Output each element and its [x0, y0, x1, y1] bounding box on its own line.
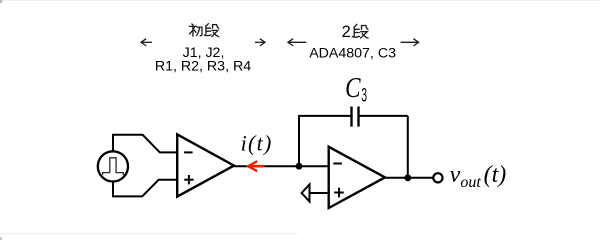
arrow right (stage-1 span): [255, 39, 265, 46]
arrow left (stage-2 span): [288, 39, 306, 46]
初 left radical: [192, 24, 194, 25]
段 left part: [354, 24, 357, 27]
pulse source V1 circle: [98, 151, 128, 181]
wire source bottom to op-amp U1 non-inverting input: [113, 180, 177, 197]
初 right 刀: [197, 27, 202, 36]
svg-text:(t): (t): [484, 162, 507, 188]
op-amp U1 minus sign: [184, 151, 193, 153]
svg-text:out: out: [460, 174, 481, 191]
node A junction dot: [296, 163, 303, 170]
arrow left (stage-1 span): [141, 39, 152, 46]
output node junction dot: [404, 174, 411, 181]
段 right 殳: [213, 25, 219, 29]
svg-text:R1, R2, R3, R4: R1, R2, R3, R4: [155, 58, 251, 74]
faint card top border: [0, 0, 600, 3]
wire node A up to feedback branch: [298, 116, 300, 166]
label vout(t): [450, 162, 507, 191]
svg-text:C: C: [345, 73, 361, 104]
svg-text:2: 2: [342, 23, 351, 41]
op-amp U2 plus sign: [334, 188, 344, 198]
op-amp U1 plus sign: [184, 175, 193, 184]
ground reference arrow at U2 non-inverting input: [302, 184, 329, 201]
pulse source waveform glyph: [103, 158, 124, 175]
wire U1 output to U2 inverting input: [234, 165, 329, 167]
capacitor C3 plates: [352, 107, 359, 127]
svg-text:ADA4807, C3: ADA4807, C3: [309, 45, 396, 61]
op-amp U2 triangle: [329, 147, 385, 208]
label 初段 (stage-1 heading, hand-drawn kanji): [189, 24, 202, 36]
faint bottom rule: [0, 234, 298, 241]
label C3: [345, 73, 367, 107]
wire feedback down to output node: [407, 116, 409, 178]
svg-text:3: 3: [361, 85, 367, 106]
wire U2 output to terminal: [385, 177, 433, 179]
current arrow i(t) (red): [248, 161, 264, 171]
svg-text:v: v: [450, 162, 461, 188]
svg-text:i(t): i(t): [241, 130, 273, 155]
output terminal (open circle): [433, 173, 442, 182]
wire source top to op-amp U1 inverting input: [113, 135, 177, 153]
段 right 殳: [362, 26, 369, 30]
wire feedback left segment: [298, 115, 351, 117]
arrow right (stage-2 span): [401, 39, 419, 46]
wire feedback right segment: [359, 115, 408, 117]
op-amp U2 minus sign: [333, 163, 342, 165]
op-amp U1 triangle: [177, 134, 234, 196]
段 left part: [206, 24, 209, 26]
